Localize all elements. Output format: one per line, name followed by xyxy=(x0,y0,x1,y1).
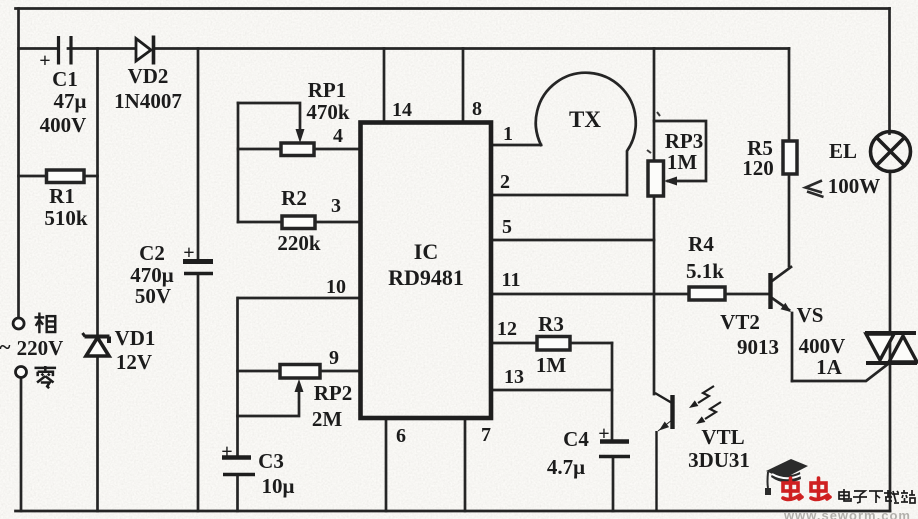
svg-text:C1: C1 xyxy=(52,67,78,91)
svg-text:50V: 50V xyxy=(135,284,171,308)
svg-text:VT2: VT2 xyxy=(720,310,760,334)
svg-text:11: 11 xyxy=(502,269,521,291)
svg-text:220V: 220V xyxy=(17,336,64,360)
svg-text:470k: 470k xyxy=(306,100,350,124)
svg-text:2M: 2M xyxy=(312,407,343,431)
svg-text:5.1k: 5.1k xyxy=(686,259,724,283)
svg-text:47μ: 47μ xyxy=(54,89,87,113)
svg-text:RP2: RP2 xyxy=(314,381,353,405)
svg-text:VTL: VTL xyxy=(701,425,744,449)
svg-text:IC: IC xyxy=(414,239,438,264)
svg-text:6: 6 xyxy=(396,425,406,447)
svg-text:9013: 9013 xyxy=(737,335,779,359)
svg-text:R1: R1 xyxy=(49,184,75,208)
svg-text:5: 5 xyxy=(502,216,512,238)
svg-text:www.seworm.com: www.seworm.com xyxy=(783,508,911,519)
svg-text:4: 4 xyxy=(333,125,343,147)
svg-text:1: 1 xyxy=(503,123,513,145)
svg-text:VD1: VD1 xyxy=(115,326,156,350)
svg-text:10μ: 10μ xyxy=(262,474,295,498)
svg-text:220k: 220k xyxy=(277,231,321,255)
svg-text:~: ~ xyxy=(0,335,11,359)
svg-text:+: + xyxy=(183,242,194,264)
svg-text:100W: 100W xyxy=(828,174,881,198)
svg-text:VS: VS xyxy=(797,303,824,327)
svg-text:C3: C3 xyxy=(258,449,284,473)
svg-text:13: 13 xyxy=(504,366,524,388)
svg-text:3: 3 xyxy=(331,195,341,217)
svg-text:C2: C2 xyxy=(139,241,165,265)
svg-text:120: 120 xyxy=(742,156,774,180)
svg-text:TX: TX xyxy=(569,107,601,132)
svg-text:3DU31: 3DU31 xyxy=(688,448,750,472)
svg-text:12V: 12V xyxy=(116,350,152,374)
svg-text:7: 7 xyxy=(481,424,491,446)
svg-text:4.7μ: 4.7μ xyxy=(547,455,585,479)
svg-text:12: 12 xyxy=(497,318,517,340)
svg-text:EL: EL xyxy=(829,139,857,163)
svg-text:+: + xyxy=(598,423,609,445)
svg-text:R3: R3 xyxy=(538,312,564,336)
svg-text:8: 8 xyxy=(472,98,482,120)
svg-text:+: + xyxy=(221,441,232,463)
svg-text:1N4007: 1N4007 xyxy=(114,89,182,113)
svg-text:RP1: RP1 xyxy=(308,78,347,102)
svg-text:1A: 1A xyxy=(816,355,843,379)
svg-text:14: 14 xyxy=(392,99,412,121)
svg-text:RD9481: RD9481 xyxy=(388,265,464,290)
svg-text:2: 2 xyxy=(500,171,510,193)
svg-text:C4: C4 xyxy=(563,427,589,451)
svg-text:R4: R4 xyxy=(688,232,714,256)
svg-text:R2: R2 xyxy=(281,186,307,210)
svg-text:10: 10 xyxy=(326,276,346,298)
svg-text:+: + xyxy=(39,50,50,72)
svg-text:1M: 1M xyxy=(536,353,567,377)
svg-text:400V: 400V xyxy=(40,113,87,137)
svg-text:510k: 510k xyxy=(44,206,88,230)
svg-text:VD2: VD2 xyxy=(128,64,169,88)
svg-text:9: 9 xyxy=(329,347,339,369)
svg-text:1M: 1M xyxy=(667,150,698,174)
